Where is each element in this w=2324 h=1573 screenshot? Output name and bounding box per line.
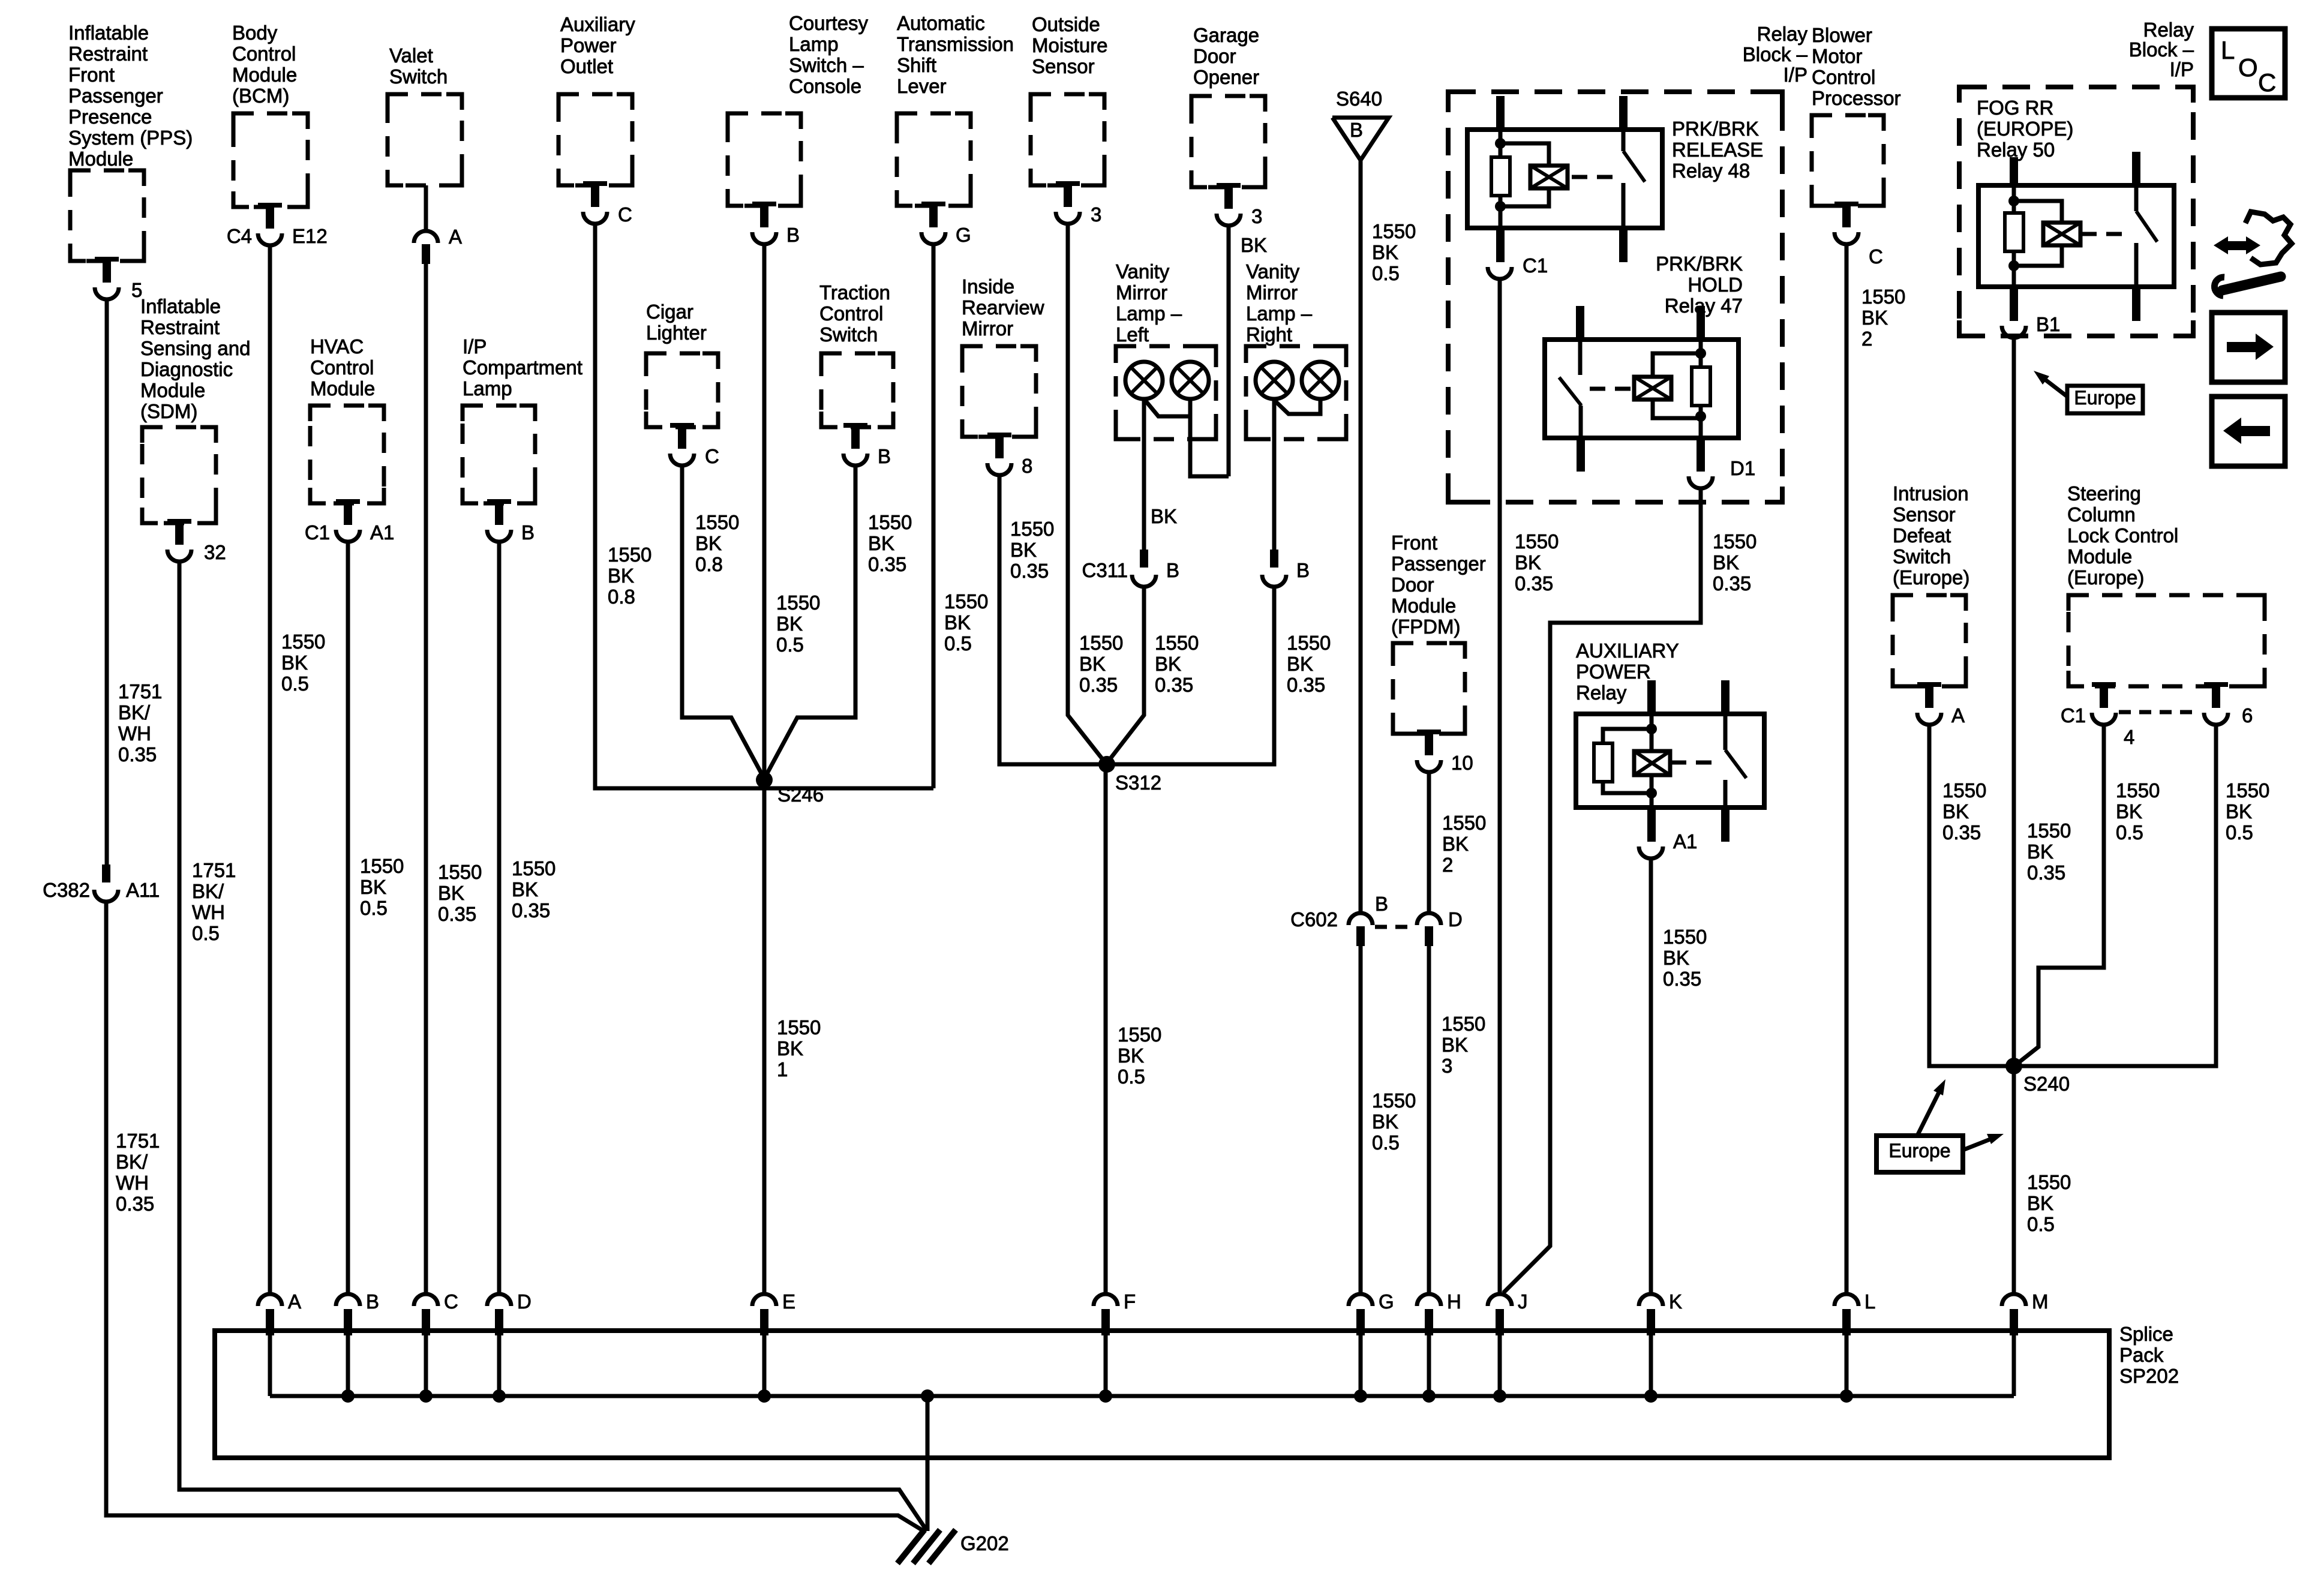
pin label A intrusion: [1951, 704, 1965, 727]
relay U47 coil bottom pin: [1697, 438, 1705, 472]
svg-text:0.35: 0.35: [1287, 674, 1325, 696]
svg-text:BK: BK: [1713, 551, 1739, 574]
svg-text:Diagnostic: Diagnostic: [140, 358, 233, 380]
relay AUX resistor branch: [1603, 729, 1652, 793]
connector C382 A11: [94, 864, 118, 902]
svg-text:1751: 1751: [116, 1130, 160, 1152]
svg-text:Mirror: Mirror: [962, 317, 1013, 340]
svg-text:S240: S240: [2023, 1073, 2070, 1095]
pin label C aux outlet: [618, 203, 632, 226]
svg-text:Module: Module: [68, 148, 133, 170]
relay U48 label: [1672, 118, 1763, 182]
wire blower to splice L: [1845, 244, 1849, 1295]
module Cigar Lighter label: [646, 301, 707, 344]
pin label B courtesy: [786, 224, 800, 246]
relay U50 coil branch: [2014, 201, 2062, 266]
svg-text:0.35: 0.35: [1155, 674, 1193, 696]
module SCLCM label: [2067, 482, 2178, 589]
svg-text:A: A: [1951, 704, 1965, 727]
svg-text:1550: 1550: [1515, 530, 1559, 553]
pin label G atsl: [956, 224, 971, 246]
module Vanity Mirror Lamp Right label: [1246, 260, 1313, 346]
svg-text:Mirror: Mirror: [1116, 281, 1167, 304]
wire C602 D to splice H: [1427, 946, 1431, 1295]
relay U48 coil K1: [1530, 166, 1568, 188]
svg-text:Outlet: Outlet: [560, 55, 613, 77]
wire S640 to C602 B: [1359, 160, 1363, 914]
wire ground tap: [926, 1396, 930, 1531]
relay block IP label: [1743, 23, 1808, 86]
relay AUX box: [1576, 714, 1764, 807]
relay U47 box: [1545, 340, 1739, 438]
wire pin M to splice bus: [2012, 1333, 2016, 1396]
module Valet Switch box: [388, 94, 462, 185]
svg-text:BK/: BK/: [116, 1151, 148, 1173]
svg-text:B: B: [1166, 559, 1179, 581]
wire vanity right to S312: [1108, 587, 1274, 764]
tag Europe fog arrow: [2034, 371, 2067, 397]
svg-text:Rearview: Rearview: [962, 296, 1044, 319]
relay U47 node dot1: [1695, 348, 1706, 359]
svg-text:BK: BK: [2027, 1192, 2053, 1214]
relay AUX switch contact lower: [1724, 780, 1728, 807]
label 1550 BK 0.35 mirror: [1010, 518, 1054, 582]
module Intrusion box: [1893, 595, 1966, 686]
relay U50 coil bottom pin: [2010, 287, 2018, 321]
label 1550 BK 0.5 wire A: [281, 631, 325, 695]
pin label L splice: [1864, 1290, 1875, 1313]
svg-text:Switch: Switch: [389, 65, 448, 88]
pin label H splice: [1447, 1290, 1461, 1313]
module Inside Rearview Mirror label: [962, 275, 1044, 340]
svg-text:Switch: Switch: [819, 323, 878, 346]
svg-text:C: C: [1869, 245, 1883, 268]
junction dot F: [1099, 1389, 1112, 1403]
relay AUX coil-switch dashed link: [1671, 761, 1718, 765]
svg-text:BK: BK: [512, 878, 538, 900]
connector label C1 sclcm: [2061, 704, 2086, 727]
junction dot G: [1354, 1389, 1367, 1403]
icon wrench arrows: [2214, 212, 2292, 296]
svg-text:B: B: [1350, 119, 1363, 141]
wire SCLCM 6 to S240: [2016, 725, 2216, 1066]
svg-text:BK: BK: [1151, 505, 1177, 527]
svg-text:POWER: POWER: [1576, 661, 1651, 683]
relay U50 switch blade: [2136, 211, 2157, 242]
relay U50 coil-switch dashed link: [2081, 232, 2128, 236]
connector A valet: [414, 231, 438, 264]
relay AUX switch bottom pin: [1721, 807, 1730, 842]
svg-text:1550: 1550: [1079, 632, 1123, 654]
lamp bulb right2: [1302, 362, 1339, 399]
label 1550 BK 0.35 wire D: [512, 857, 556, 921]
relay U47 coil wire: [1699, 340, 1703, 438]
svg-text:1550: 1550: [438, 861, 482, 883]
module SCLCM box: [2068, 595, 2265, 686]
svg-text:M: M: [2032, 1290, 2049, 1313]
pin label J splice: [1518, 1290, 1528, 1313]
svg-text:Lamp: Lamp: [463, 377, 512, 400]
svg-text:4: 4: [2124, 726, 2134, 748]
connector K splice pack: [1639, 1294, 1663, 1335]
svg-text:2: 2: [1442, 854, 1453, 876]
wire gdo down to vanity: [1227, 226, 1231, 476]
label 1550 BK 0.35 wire C: [438, 861, 482, 925]
svg-text:G: G: [956, 224, 971, 246]
label 1550 BK 0.8 cigar: [695, 511, 739, 575]
label 1550 BK 0.5 wire B: [360, 855, 404, 919]
svg-text:BK: BK: [2027, 840, 2053, 863]
label 1550 BK 0.5 atsl: [944, 590, 988, 655]
pin label 3 gdo: [1251, 205, 1262, 227]
relay U48 coil wire: [1499, 130, 1503, 228]
module PPS box: [70, 170, 144, 261]
node S640 label: [1336, 88, 1382, 110]
svg-text:D: D: [517, 1290, 532, 1313]
svg-text:B: B: [521, 521, 535, 544]
relay AUX node dot1: [1646, 724, 1657, 734]
relay U48 switch contact lower: [1622, 183, 1626, 228]
svg-text:0.35: 0.35: [438, 903, 476, 925]
svg-text:0.5: 0.5: [2226, 821, 2253, 843]
svg-text:Control: Control: [310, 356, 374, 379]
svg-text:1751: 1751: [192, 859, 236, 881]
svg-text:Column: Column: [2067, 503, 2136, 526]
svg-text:Transmission: Transmission: [897, 33, 1014, 55]
connector label B1 fog: [2036, 313, 2060, 335]
module FPDM label: [1391, 532, 1486, 638]
svg-text:Splice: Splice: [2119, 1323, 2173, 1345]
svg-text:WH: WH: [116, 1172, 149, 1194]
svg-text:BK/: BK/: [118, 701, 151, 724]
relay U47 coil-switch dashed link: [1590, 387, 1631, 391]
svg-text:Control: Control: [1812, 66, 1875, 88]
pin label A splice: [288, 1290, 301, 1313]
connector label D1 relay47: [1730, 457, 1755, 479]
svg-text:Lever: Lever: [897, 75, 947, 97]
svg-text:Block –: Block –: [2129, 38, 2194, 61]
relay U47 switch top pin: [1576, 306, 1584, 340]
svg-text:0.8: 0.8: [695, 553, 723, 575]
svg-text:BK: BK: [2226, 800, 2252, 822]
module Blower box: [1812, 115, 1884, 206]
svg-text:(EUROPE): (EUROPE): [1977, 118, 2073, 140]
svg-text:FOG RR: FOG RR: [1977, 97, 2053, 119]
svg-text:1550: 1550: [2027, 819, 2071, 842]
label 1550 BK 0.35 vanity right: [1287, 632, 1331, 696]
wire ATSL to S246 bus: [932, 244, 936, 788]
svg-text:H: H: [1447, 1290, 1461, 1313]
wire SCLCM C1 to S240: [2016, 725, 2104, 1065]
relay AUX switch top pin: [1721, 680, 1730, 714]
svg-text:A: A: [288, 1290, 301, 1313]
svg-text:0.35: 0.35: [116, 1193, 154, 1215]
svg-text:Switch –: Switch –: [789, 54, 864, 76]
relay AUX node dot2: [1646, 788, 1657, 798]
connector SCLCM dashed link: [2119, 710, 2200, 715]
svg-text:C1: C1: [1523, 254, 1548, 277]
wire right bulb1 to B: [1272, 399, 1277, 550]
relay U48 switch blade: [1623, 151, 1645, 182]
junction dot C: [419, 1389, 433, 1403]
svg-text:(SDM): (SDM): [140, 400, 197, 422]
svg-text:C: C: [705, 445, 719, 467]
relay AUX coil bottom pin: [1647, 807, 1656, 842]
junction dot J: [1493, 1389, 1506, 1403]
svg-text:3: 3: [1442, 1055, 1452, 1077]
svg-text:0.35: 0.35: [868, 553, 906, 575]
svg-text:Processor: Processor: [1812, 87, 1901, 109]
svg-text:1550: 1550: [2116, 779, 2160, 801]
relay U48 switch contact upper: [1622, 130, 1626, 151]
pin label A11: [126, 879, 160, 901]
svg-text:Presence: Presence: [68, 106, 152, 128]
label BK vanity left: [1151, 505, 1177, 527]
relay U50 label: [1977, 97, 2073, 161]
svg-text:1751: 1751: [118, 680, 162, 703]
wire HVAC to splice B: [346, 542, 350, 1295]
svg-text:0.35: 0.35: [1515, 572, 1553, 595]
wire C311 to S312: [1107, 587, 1144, 763]
relay U48 coil branch: [1500, 143, 1549, 206]
svg-text:Valet: Valet: [389, 44, 433, 67]
label 1550 BK 0.35 traction: [868, 511, 912, 575]
svg-text:Pack: Pack: [2119, 1344, 2164, 1366]
connector A1 aux relay: [1639, 846, 1663, 858]
relay U48 coil top pin: [1496, 96, 1505, 130]
svg-text:Restraint: Restraint: [68, 43, 148, 65]
svg-text:C: C: [444, 1290, 458, 1313]
connector label C1 relay48: [1523, 254, 1548, 277]
connector C4 E12 on BCM: [258, 203, 282, 245]
tag Europe s240 box: [1876, 1136, 1963, 1172]
svg-text:Relay: Relay: [1576, 682, 1627, 704]
relay U48 switch top pin: [1619, 96, 1628, 130]
svg-text:1550: 1550: [281, 631, 325, 653]
wire pin B to splice bus: [346, 1333, 350, 1396]
svg-text:BK: BK: [1079, 653, 1106, 675]
icon LOC box: [2212, 29, 2285, 98]
module ATSL label: [897, 12, 1014, 97]
connector B vanity right: [1262, 550, 1286, 587]
connector label C1: [305, 521, 330, 544]
wire C1 to splice J: [1498, 279, 1502, 1294]
svg-text:0.35: 0.35: [512, 899, 550, 921]
svg-text:C1: C1: [2061, 704, 2086, 727]
connector E splice pack: [752, 1294, 776, 1335]
relay AUX coil K1: [1634, 751, 1670, 775]
module Courtesy Lamp Switch box: [728, 113, 801, 206]
svg-text:BK: BK: [944, 611, 971, 634]
relay U48 coil-switch dashed link: [1572, 175, 1617, 179]
svg-text:0.5: 0.5: [2116, 821, 2143, 843]
svg-text:1550: 1550: [360, 855, 404, 877]
svg-text:BK: BK: [777, 1037, 803, 1059]
svg-text:B: B: [366, 1290, 379, 1313]
svg-text:Blower: Blower: [1812, 24, 1872, 46]
label 1550 BK 0.35 wire D1: [1713, 530, 1756, 595]
module Auxiliary Power Outlet box: [559, 94, 632, 185]
svg-text:HOLD: HOLD: [1688, 274, 1743, 296]
module Auxiliary Power Outlet label: [560, 13, 635, 77]
pin label A valet: [449, 226, 462, 248]
ground G202 label: [960, 1532, 1009, 1554]
svg-text:10: 10: [1451, 752, 1473, 774]
junction dot L: [1840, 1389, 1853, 1403]
relay U47 coil top pin: [1697, 306, 1705, 340]
svg-text:1550: 1550: [1372, 1089, 1416, 1112]
wire valet box to connector A: [424, 185, 428, 232]
svg-text:0.5: 0.5: [2027, 1213, 2055, 1235]
svg-text:Power: Power: [560, 34, 617, 56]
splice bus SP202 line: [270, 1394, 2014, 1398]
svg-text:Front: Front: [68, 64, 115, 86]
connector 8 on mirror: [987, 433, 1011, 475]
svg-text:1550: 1550: [1713, 530, 1756, 553]
wire bulb1 to C311: [1142, 399, 1146, 550]
junction dot H: [1422, 1389, 1436, 1403]
svg-text:Control: Control: [232, 43, 296, 65]
label 1751 BK/WH 0.35 lower: [116, 1130, 160, 1215]
svg-text:SP202: SP202: [2119, 1365, 2179, 1387]
connector A splice pack: [258, 1294, 282, 1335]
connector A on intrusion: [1917, 682, 1941, 725]
wire C602 B to splice G: [1359, 946, 1363, 1295]
svg-text:0.35: 0.35: [1713, 572, 1751, 595]
relay U50 node dot2: [2008, 260, 2019, 271]
module Traction Control Switch box: [821, 353, 893, 427]
wire S246 to splice E: [762, 780, 767, 1295]
relay AUX resistor R1: [1594, 743, 1613, 782]
svg-text:Lamp: Lamp: [789, 33, 839, 55]
svg-text:0.5: 0.5: [281, 673, 309, 695]
svg-text:BK: BK: [1942, 800, 1969, 822]
label 1550 BK 3 wire H: [1442, 1013, 1485, 1077]
wire S240 to splice M: [2012, 1066, 2016, 1295]
relay U50 switch contact upper: [2134, 185, 2139, 211]
svg-text:Compartment: Compartment: [463, 356, 582, 379]
wire pin D to splice bus: [497, 1333, 502, 1396]
connector G splice pack: [1349, 1294, 1373, 1335]
svg-text:(FPDM): (FPDM): [1391, 616, 1460, 638]
wire B1 to S240: [2012, 338, 2016, 1066]
wire pin G to splice bus: [1359, 1333, 1363, 1396]
svg-text:A1: A1: [370, 521, 394, 544]
svg-text:1550: 1550: [868, 511, 912, 533]
wire bulb jog left lamp: [1144, 399, 1190, 416]
svg-text:Cigar: Cigar: [646, 301, 693, 323]
pin label B c602: [1375, 893, 1388, 915]
svg-text:Traction: Traction: [819, 281, 890, 304]
module Outside Moisture Sensor label: [1032, 13, 1108, 77]
tag Europe fog box: [2067, 386, 2143, 413]
relay AUX coil wire: [1650, 714, 1654, 807]
svg-text:D: D: [1448, 908, 1463, 930]
svg-text:G202: G202: [960, 1532, 1009, 1554]
connector D1 relay47: [1689, 476, 1713, 488]
svg-text:Inflatable: Inflatable: [140, 295, 221, 317]
svg-text:Block –: Block –: [1743, 43, 1808, 65]
svg-text:Control: Control: [819, 302, 883, 325]
svg-text:C: C: [618, 203, 632, 226]
svg-text:1550: 1550: [2226, 779, 2269, 801]
wire bulb jog right lamp: [1274, 399, 1320, 414]
svg-text:0.35: 0.35: [2027, 861, 2065, 884]
svg-text:Module: Module: [1391, 595, 1456, 617]
module Cigar Lighter box: [646, 353, 718, 427]
node S312 dot: [1098, 756, 1115, 773]
svg-text:0.5: 0.5: [192, 922, 220, 944]
svg-text:Intrusion: Intrusion: [1893, 482, 1969, 505]
svg-text:Inside: Inside: [962, 275, 1014, 298]
svg-text:Module: Module: [2067, 545, 2132, 568]
wire C382 to ground run: [106, 902, 926, 1532]
tag Europe s240 arrow right: [1963, 1134, 2004, 1150]
module Blower Motor Control Processor label: [1812, 24, 1901, 109]
connector M splice pack: [2002, 1294, 2026, 1335]
wire A1 to splice K: [1649, 858, 1653, 1295]
module HVAC label: [310, 335, 375, 400]
svg-text:Inflatable: Inflatable: [68, 22, 149, 44]
module Courtesy Lamp Switch label: [789, 12, 869, 97]
relay AUX coil top pin: [1647, 680, 1656, 714]
relay U50 coil wire: [2012, 185, 2016, 287]
svg-text:2: 2: [1861, 328, 1872, 350]
label BK gdo: [1241, 234, 1267, 256]
relay block IP fog label: [2129, 19, 2194, 80]
label 1550 BK 1: [777, 1016, 821, 1080]
svg-text:1550: 1550: [1861, 286, 1905, 308]
module SDM label: [140, 295, 250, 422]
svg-text:(BCM): (BCM): [232, 85, 289, 107]
svg-text:BK: BK: [1118, 1044, 1144, 1067]
connector G on ATSL: [921, 202, 945, 244]
label 1550 BK 2 fpdm: [1442, 812, 1486, 876]
connector C1 A1 on HVAC: [336, 499, 360, 542]
module PPS label: [68, 22, 193, 170]
module SDM box: [142, 427, 216, 523]
junction dot B: [341, 1389, 355, 1403]
pin label E12: [292, 225, 328, 247]
connector 32 on SDM: [167, 519, 191, 562]
svg-text:0.5: 0.5: [944, 632, 972, 655]
wire PPS 5 to C382: [105, 299, 109, 864]
wire bulb2 to garage door opener wire: [1190, 399, 1229, 476]
lamp bulb right1: [1256, 362, 1293, 399]
svg-text:B1: B1: [2036, 313, 2060, 335]
svg-text:WH: WH: [192, 901, 225, 923]
pin label 5: [131, 279, 142, 301]
svg-text:1550: 1550: [1442, 1013, 1485, 1035]
relay U50 box: [1978, 185, 2174, 287]
svg-text:0.5: 0.5: [1372, 1131, 1400, 1154]
svg-text:Passenger: Passenger: [1391, 553, 1486, 575]
pin label 32: [204, 541, 226, 563]
relay U48 node dot2: [1495, 201, 1506, 212]
wire pin K to splice bus: [1649, 1333, 1653, 1396]
pin label D c602: [1448, 908, 1463, 930]
svg-text:C602: C602: [1290, 908, 1338, 930]
svg-text:BK: BK: [1010, 539, 1037, 561]
svg-text:C382: C382: [43, 879, 90, 901]
relay U48 box: [1467, 130, 1662, 228]
label 1550 BK 0.5 wire G low: [1372, 1089, 1416, 1154]
pin label 8 mirror: [1022, 455, 1032, 477]
label 1550 BK 0.35 wire K: [1663, 926, 1707, 990]
svg-text:G: G: [1379, 1290, 1394, 1313]
svg-text:1550: 1550: [512, 857, 556, 879]
wire pin H to splice bus: [1427, 1333, 1431, 1396]
